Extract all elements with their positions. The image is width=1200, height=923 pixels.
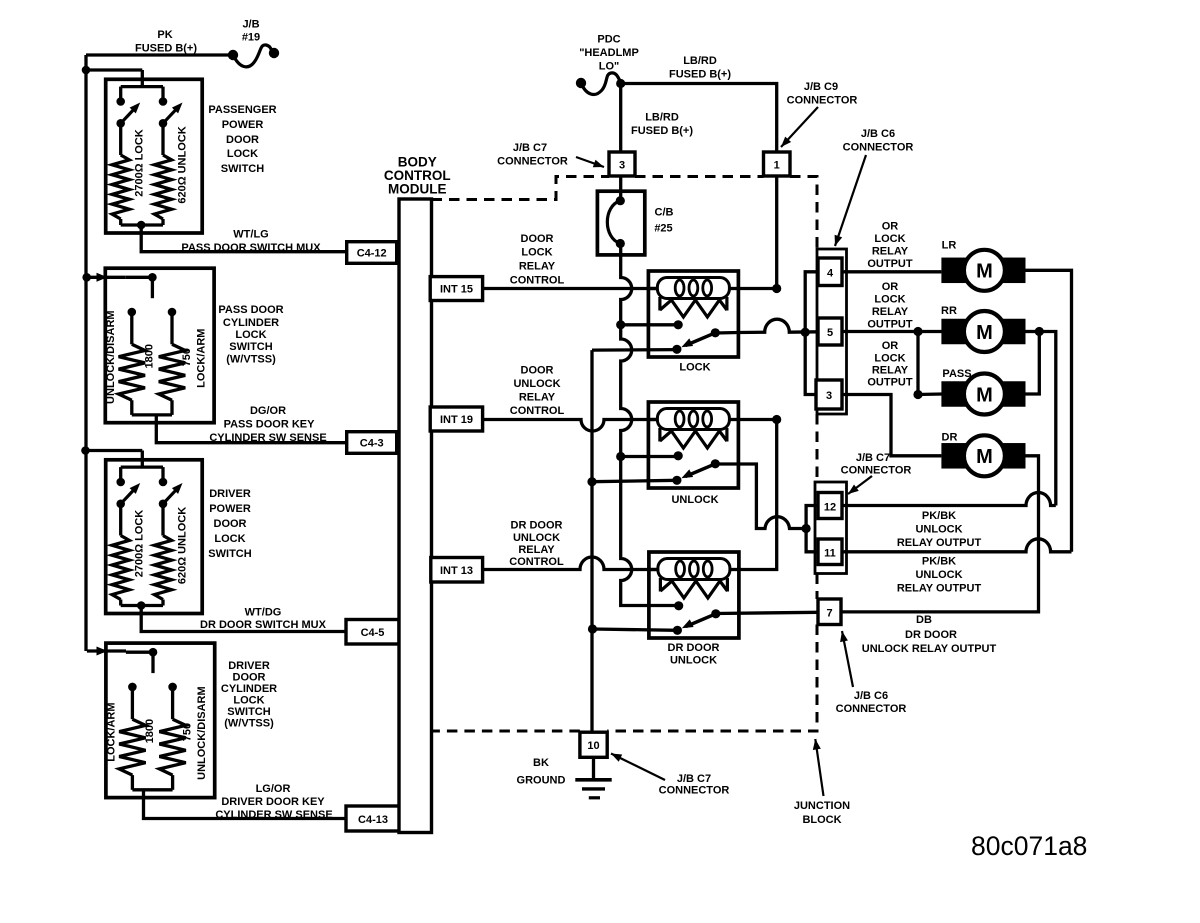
node junction RR/PASS feed xyxy=(913,327,922,336)
svg-text:C/B: C/B xyxy=(655,207,674,219)
svg-text:RELAY: RELAY xyxy=(872,246,909,258)
label PK FUSED B(+) xyxy=(135,29,197,55)
svg-text:LOCK: LOCK xyxy=(679,362,710,374)
svg-text:7: 7 xyxy=(826,607,832,619)
svg-text:BLOCK: BLOCK xyxy=(802,814,841,826)
wire: pin 11 to LR return (arcs over DR line) xyxy=(842,539,1072,552)
svg-text:UNLOCK: UNLOCK xyxy=(915,569,962,581)
node supply junction to LOCK relay contact xyxy=(616,320,625,329)
node junction RR/PASS motor returns xyxy=(1035,327,1044,336)
svg-text:J/B C9: J/B C9 xyxy=(804,81,838,93)
wire: OR lock relay output (arcs over coil feed line) xyxy=(715,319,818,333)
svg-text:UNLOCK: UNLOCK xyxy=(513,532,560,544)
svg-text:MODULE: MODULE xyxy=(388,182,447,197)
svg-text:JUNCTION: JUNCTION xyxy=(794,800,850,812)
label DRIVER DOOR CYLINDER LOCK SWITCH (W/VTSS) xyxy=(221,660,277,730)
svg-text:CONNECTOR: CONNECTOR xyxy=(836,703,907,715)
svg-text:PASS: PASS xyxy=(942,368,971,380)
svg-text:CYLINDER: CYLINDER xyxy=(223,317,279,329)
svg-text:OUTPUT: OUTPUT xyxy=(867,377,913,389)
connector pin 12 xyxy=(818,493,842,519)
svg-text:BK: BK xyxy=(533,757,549,769)
svg-text:CONNECTOR: CONNECTOR xyxy=(659,785,730,797)
wire: DR relay common to ground line xyxy=(593,629,678,630)
svg-text:RELAY: RELAY xyxy=(872,365,909,377)
svg-text:J/B C6: J/B C6 xyxy=(854,690,888,702)
svg-text:LOCK: LOCK xyxy=(214,533,245,545)
motor M3 PASS door lock motor xyxy=(941,368,1025,415)
wire: RR/PASS return down to pin 12 run xyxy=(1039,332,1056,506)
svg-text:CONTROL: CONTROL xyxy=(509,556,564,568)
wire: door lock relay control INT 15 to LOCK relay coil xyxy=(483,287,658,290)
node junction PASS feed xyxy=(913,390,922,399)
node ground junction UNLOCK relay common xyxy=(587,477,596,486)
switch S4 driver door cylinder lock switch (W/VTSS) xyxy=(106,643,215,798)
svg-text:DB: DB xyxy=(916,614,932,626)
svg-text:DRIVER DOOR KEY: DRIVER DOOR KEY xyxy=(221,796,325,808)
svg-text:RELAY: RELAY xyxy=(518,544,555,556)
wire: RR motor right junction xyxy=(1026,330,1040,333)
wire: DR relay coil from junction block feed xyxy=(739,420,777,570)
svg-text:INT 15: INT 15 xyxy=(440,284,473,296)
label DR DOOR UNLOCK xyxy=(668,642,720,667)
svg-text:J/B C7: J/B C7 xyxy=(677,773,711,785)
svg-text:2700Ω LOCK: 2700Ω LOCK xyxy=(134,510,146,578)
wire: pass door switch mux to C4-12 xyxy=(141,225,347,252)
svg-text:DR DOOR: DR DOOR xyxy=(511,520,563,532)
label LG/OR DRIVER DOOR KEY CYLINDER SW SENSE xyxy=(215,783,332,821)
svg-text:10: 10 xyxy=(587,740,599,752)
svg-text:LOCK: LOCK xyxy=(874,233,905,245)
svg-text:OR: OR xyxy=(882,281,899,293)
wire: feed into driver door cylinder lock switch with arrow xyxy=(87,649,126,652)
svg-text:C4-5: C4-5 xyxy=(361,627,385,639)
svg-text:M: M xyxy=(976,384,993,406)
svg-text:LOCK: LOCK xyxy=(235,329,266,341)
svg-text:RELAY: RELAY xyxy=(519,260,556,272)
svg-text:DR DOOR SWITCH MUX: DR DOOR SWITCH MUX xyxy=(200,619,327,631)
node LB/RD feed junction xyxy=(616,79,625,88)
label PASSENGER POWER DOOR LOCK SWITCH xyxy=(208,104,276,175)
svg-text:DG/OR: DG/OR xyxy=(250,405,286,417)
svg-text:POWER: POWER xyxy=(222,119,264,131)
svg-text:(W/VTSS): (W/VTSS) xyxy=(224,718,274,730)
svg-text:LOCK: LOCK xyxy=(874,294,905,306)
svg-text:DOOR: DOOR xyxy=(226,134,259,146)
label DB DR DOOR UNLOCK RELAY OUTPUT xyxy=(862,614,997,655)
svg-text:UNLOCK: UNLOCK xyxy=(915,524,962,536)
svg-text:POWER: POWER xyxy=(209,503,251,515)
svg-text:SWITCH: SWITCH xyxy=(227,706,270,718)
label LB/RD FUSED B(+) left xyxy=(631,112,693,138)
svg-text:M: M xyxy=(976,322,993,344)
svg-text:M: M xyxy=(976,261,993,283)
svg-text:UNLOCK: UNLOCK xyxy=(513,378,560,390)
svg-text:750: 750 xyxy=(181,348,193,366)
wire: ground return vertical to pin 10 xyxy=(592,350,594,732)
svg-text:LOCK/ARM: LOCK/ARM xyxy=(106,702,118,761)
connector pin 5 xyxy=(818,318,842,345)
svg-text:LO": LO" xyxy=(599,61,620,73)
label J/B C6 CONNECTOR upper with arrow xyxy=(835,128,914,246)
svg-text:SWITCH: SWITCH xyxy=(221,163,264,175)
svg-text:750: 750 xyxy=(182,723,194,741)
label PDC "HEADLMP LO" xyxy=(579,34,639,73)
svg-text:80c071a8: 80c071a8 xyxy=(971,831,1087,861)
svg-text:CONNECTOR: CONNECTOR xyxy=(843,142,914,154)
svg-text:SWITCH: SWITCH xyxy=(208,548,251,560)
connector pin 11 xyxy=(818,539,842,565)
label C/B #25 xyxy=(654,207,673,235)
svg-text:J/B: J/B xyxy=(242,19,259,31)
label OR LOCK RELAY OUTPUT (pin 5) xyxy=(867,281,913,330)
svg-text:UNLOCK: UNLOCK xyxy=(671,494,718,506)
svg-text:PASS DOOR SWITCH MUX: PASS DOOR SWITCH MUX xyxy=(181,242,321,254)
module U1 body control module xyxy=(399,199,432,833)
svg-text:DRIVER: DRIVER xyxy=(228,660,270,672)
label BK GROUND xyxy=(517,757,566,787)
connector C4-12 xyxy=(347,242,397,264)
svg-text:DR DOOR: DR DOOR xyxy=(905,629,957,641)
svg-text:PK/BK: PK/BK xyxy=(922,510,956,522)
svg-text:J/B C7: J/B C7 xyxy=(856,452,890,464)
svg-text:GROUND: GROUND xyxy=(517,775,566,787)
svg-text:DR DOOR: DR DOOR xyxy=(668,642,720,654)
svg-text:1: 1 xyxy=(774,160,780,172)
wire: PK fused B(+) feed to J/B #19 xyxy=(86,53,229,56)
wire: dr door unlock relay control INT 13 to DR relay coil (arcs over ground line) xyxy=(483,557,658,570)
svg-text:DOOR: DOOR xyxy=(521,365,554,377)
label WT/DG DR DOOR SWITCH MUX xyxy=(200,607,327,632)
label PASS DOOR CYLINDER LOCK SWITCH (W/VTSS) xyxy=(218,304,283,366)
wire: LR motor right to pin 11 run xyxy=(1026,270,1072,552)
connector J/B #19 in-line connector symbol xyxy=(228,45,279,67)
wire: junction block B(+) feed from pin 1 down to relay coils xyxy=(775,176,778,289)
svg-text:OR: OR xyxy=(882,221,899,233)
svg-text:INT 13: INT 13 xyxy=(440,565,473,577)
label WT/LG PASS DOOR SWITCH MUX xyxy=(181,229,321,255)
svg-text:WT/DG: WT/DG xyxy=(245,607,282,619)
svg-text:RELAY OUTPUT: RELAY OUTPUT xyxy=(897,537,982,549)
svg-text:1800: 1800 xyxy=(144,719,156,743)
svg-text:"HEADLMP: "HEADLMP xyxy=(579,47,639,59)
svg-text:FUSED B(+): FUSED B(+) xyxy=(669,69,731,81)
label J/B C6 CONNECTOR (lower) with arrow xyxy=(836,631,907,715)
node coil feed junction UNLOCK xyxy=(772,415,781,424)
svg-text:M: M xyxy=(976,446,993,468)
svg-text:RELAY OUTPUT: RELAY OUTPUT xyxy=(897,583,982,595)
svg-text:PASS DOOR KEY: PASS DOOR KEY xyxy=(224,419,316,431)
svg-text:OUTPUT: OUTPUT xyxy=(867,318,913,330)
label PK/BK UNLOCK RELAY OUTPUT (pin 11) xyxy=(897,556,982,595)
connector pin 3 J/B C7 xyxy=(609,152,635,176)
wire: LOCK relay common to ground line xyxy=(592,348,677,352)
connector bracket J/B C7 (pins 12,11) xyxy=(815,482,847,574)
wire: UNLOCK relay coil to junction block feed xyxy=(738,418,776,421)
label J/B #19 xyxy=(242,19,260,44)
label J/B C7 CONNECTOR top with arrow xyxy=(497,142,604,168)
wire: feed into driver power door lock switch xyxy=(86,449,143,452)
wire: pin 3 to circuit breaker xyxy=(619,176,622,191)
motor M2 RR door lock motor xyxy=(941,305,1025,352)
connector bracket J/B C6 (pins 4,5,3) xyxy=(817,249,847,414)
svg-text:RR: RR xyxy=(941,305,957,317)
wire: bracket tying pins 12,11 xyxy=(806,506,818,552)
svg-text:PASSENGER: PASSENGER xyxy=(208,104,276,116)
wire: LOCK relay coil to junction block feed xyxy=(738,287,776,290)
node supply junction to UNLOCK relay contact xyxy=(616,452,625,461)
svg-text:11: 11 xyxy=(824,548,836,560)
svg-text:C4-3: C4-3 xyxy=(360,438,384,450)
connector INT 19 xyxy=(430,407,482,431)
svg-text:OR: OR xyxy=(882,340,899,352)
svg-text:#19: #19 xyxy=(242,32,260,44)
svg-text:UNLOCK/DISARM: UNLOCK/DISARM xyxy=(105,310,117,404)
svg-text:4: 4 xyxy=(827,267,834,279)
svg-text:LOCK: LOCK xyxy=(233,695,264,707)
switch S2 pass door cylinder lock switch (W/VTSS) xyxy=(105,268,214,423)
svg-text:DOOR: DOOR xyxy=(521,233,554,245)
svg-text:SWITCH: SWITCH xyxy=(229,341,272,353)
label BODY CONTROL MODULE xyxy=(384,155,451,197)
svg-text:620Ω UNLOCK: 620Ω UNLOCK xyxy=(177,126,189,203)
switch S3 driver power door lock switch xyxy=(106,451,203,614)
svg-text:UNLOCK/DISARM: UNLOCK/DISARM xyxy=(196,686,208,780)
relay K1 LOCK relay xyxy=(648,271,738,357)
node coil feed junction LOCK xyxy=(772,284,781,293)
wire: LB/RD fused B(+) top run to pin 1 xyxy=(621,84,777,153)
svg-text:(W/VTSS): (W/VTSS) xyxy=(226,354,276,366)
node ground junction DR relay common xyxy=(588,624,597,633)
svg-text:CONNECTOR: CONNECTOR xyxy=(787,95,858,107)
relay K2 UNLOCK relay xyxy=(648,402,738,488)
svg-text:C4-12: C4-12 xyxy=(357,248,387,260)
connector PDC half-connector symbol xyxy=(576,73,620,95)
svg-text:3: 3 xyxy=(826,390,832,402)
svg-text:PK: PK xyxy=(157,29,172,41)
svg-text:UNLOCK: UNLOCK xyxy=(670,655,717,667)
connector C4-13 xyxy=(346,806,400,831)
switch S1 passenger power door lock switch xyxy=(106,70,203,233)
svg-text:PDC: PDC xyxy=(597,34,620,46)
connector pin 10 (J/B C7 ground) xyxy=(580,732,607,757)
label J/B C7 CONNECTOR (bottom) with arrow xyxy=(611,754,729,797)
svg-text:#25: #25 xyxy=(654,223,672,235)
label DRIVER POWER DOOR LOCK SWITCH xyxy=(208,488,251,560)
wire: LB/RD fused B(+) drop to pin 3 xyxy=(619,84,622,153)
wire: DB dr door unlock relay output to pin 7 xyxy=(715,612,818,613)
label DOOR LOCK RELAY CONTROL xyxy=(510,233,565,287)
svg-text:CONNECTOR: CONNECTOR xyxy=(497,156,568,168)
label LB/RD FUSED B(+) top xyxy=(669,55,731,81)
wire: feed into passenger power door lock switch xyxy=(86,68,142,71)
node: junction main feed to passenger switch xyxy=(82,66,91,75)
svg-text:OUTPUT: OUTPUT xyxy=(867,258,913,270)
wire: pin 3 to DR motor xyxy=(842,395,941,456)
wire: pin 5 to RR motor xyxy=(842,330,942,333)
node: junction main feed to pass door cylinder switch xyxy=(82,273,91,282)
connector INT 13 xyxy=(431,558,483,583)
svg-text:620Ω UNLOCK: 620Ω UNLOCK xyxy=(177,507,189,584)
connector pin 1 J/B C9 xyxy=(764,152,791,176)
connector C4-3 xyxy=(347,432,397,454)
svg-text:3: 3 xyxy=(619,160,625,172)
circuit breaker C/B #25 xyxy=(597,191,644,255)
connector pin 7 (J/B C6) xyxy=(818,599,841,625)
wire: pin 4 to LR motor xyxy=(842,270,941,273)
svg-text:RELAY: RELAY xyxy=(519,392,556,404)
node junction unlock output into pin bracket xyxy=(802,524,811,533)
relay K3 DR DOOR UNLOCK relay xyxy=(649,552,739,638)
svg-text:CONTROL: CONTROL xyxy=(510,275,565,287)
label J/B C9 CONNECTOR with arrow xyxy=(781,81,857,147)
svg-text:DOOR: DOOR xyxy=(214,518,247,530)
label OR LOCK RELAY OUTPUT (pin 4) xyxy=(867,221,913,271)
svg-text:FUSED B(+): FUSED B(+) xyxy=(135,43,197,55)
wire: DR motor right down to pin 7 xyxy=(841,456,1039,612)
svg-text:UNLOCK RELAY OUTPUT: UNLOCK RELAY OUTPUT xyxy=(862,643,997,655)
label DG/OR PASS DOOR KEY CYLINDER SW SENSE xyxy=(209,405,326,444)
svg-text:C4-13: C4-13 xyxy=(358,814,388,826)
connector pin 3 (lower) xyxy=(816,380,842,409)
svg-text:INT 19: INT 19 xyxy=(440,414,473,426)
label DOOR UNLOCK RELAY CONTROL xyxy=(510,365,565,418)
svg-text:2700Ω LOCK: 2700Ω LOCK xyxy=(134,129,146,197)
wire: branch down to PASS motor xyxy=(918,332,943,395)
node junction lock output into pin bracket xyxy=(801,328,810,337)
wire: main left feed vertical xyxy=(84,55,87,651)
svg-text:LOCK/ARM: LOCK/ARM xyxy=(195,329,207,388)
wire: dr door switch mux to C4-5 xyxy=(141,606,346,632)
svg-text:LR: LR xyxy=(942,240,957,252)
svg-text:J/B C7: J/B C7 xyxy=(513,142,547,154)
wire: switched B(+) supply vertical with crossover detours xyxy=(621,255,678,606)
label J/B C7 CONNECTOR (right) with arrow xyxy=(841,452,912,494)
connector pin 4 xyxy=(818,258,842,286)
svg-text:LOCK: LOCK xyxy=(227,148,258,160)
label OR LOCK RELAY OUTPUT (pin 3) xyxy=(867,340,913,389)
svg-text:CYLINDER SW SENSE: CYLINDER SW SENSE xyxy=(215,809,332,821)
wire: pin 12 to RR/PASS return (arcs over DR line) xyxy=(842,493,1056,506)
junction block dashed boundary xyxy=(432,177,818,732)
svg-text:RELAY: RELAY xyxy=(872,306,909,318)
motor M4 DR door lock motor xyxy=(941,432,1025,477)
svg-text:CONTROL: CONTROL xyxy=(510,405,565,417)
svg-text:PK/BK: PK/BK xyxy=(922,556,956,568)
svg-text:LOCK: LOCK xyxy=(874,353,905,365)
svg-text:LG/OR: LG/OR xyxy=(256,783,291,795)
svg-text:CONNECTOR: CONNECTOR xyxy=(841,465,912,477)
svg-text:1800: 1800 xyxy=(143,344,155,368)
wire: pass door key cylinder sw sense to C4-3 xyxy=(156,415,346,443)
svg-text:LOCK: LOCK xyxy=(521,247,552,259)
svg-text:DRIVER: DRIVER xyxy=(209,488,251,500)
wire: PK/BK unlock relay output down and over to pins 12/11 xyxy=(715,464,806,529)
svg-text:LB/RD: LB/RD xyxy=(645,112,679,124)
svg-text:12: 12 xyxy=(824,501,836,513)
svg-text:CYLINDER SW SENSE: CYLINDER SW SENSE xyxy=(209,432,326,444)
motor M1 LR door lock motor xyxy=(941,240,1025,291)
label JUNCTION BLOCK with arrow xyxy=(794,739,850,826)
wire: bracket tying pins 4,5,3 together xyxy=(805,272,818,395)
wire: UNLOCK relay common to ground line xyxy=(592,480,677,481)
svg-text:PASS DOOR: PASS DOOR xyxy=(218,304,283,316)
label DR DOOR UNLOCK RELAY CONTROL xyxy=(509,520,564,568)
svg-text:WT/LG: WT/LG xyxy=(233,229,268,241)
label PK/BK UNLOCK RELAY OUTPUT (pin 12) xyxy=(897,510,982,549)
svg-text:DOOR: DOOR xyxy=(233,672,266,684)
connector C4-5 xyxy=(346,620,399,645)
wire: door unlock relay control INT 19 to UNLOCK relay coil (dips under ground line) xyxy=(483,420,658,432)
svg-text:FUSED B(+): FUSED B(+) xyxy=(631,125,693,137)
svg-text:DR: DR xyxy=(942,432,958,444)
svg-text:J/B C6: J/B C6 xyxy=(861,128,895,140)
svg-text:CYLINDER: CYLINDER xyxy=(221,683,277,695)
wire: feed into pass door cylinder lock switch with arrow xyxy=(87,276,126,279)
node: junction main feed to driver power switch xyxy=(81,446,90,455)
wire: RR/PASS tie vertical xyxy=(1026,332,1040,395)
connector INT 15 xyxy=(430,277,482,301)
svg-text:5: 5 xyxy=(827,327,833,339)
svg-text:LB/RD: LB/RD xyxy=(683,55,717,67)
ground symbol xyxy=(575,757,611,798)
wire: driver door key cylinder sw sense to C4-13 xyxy=(144,790,347,819)
